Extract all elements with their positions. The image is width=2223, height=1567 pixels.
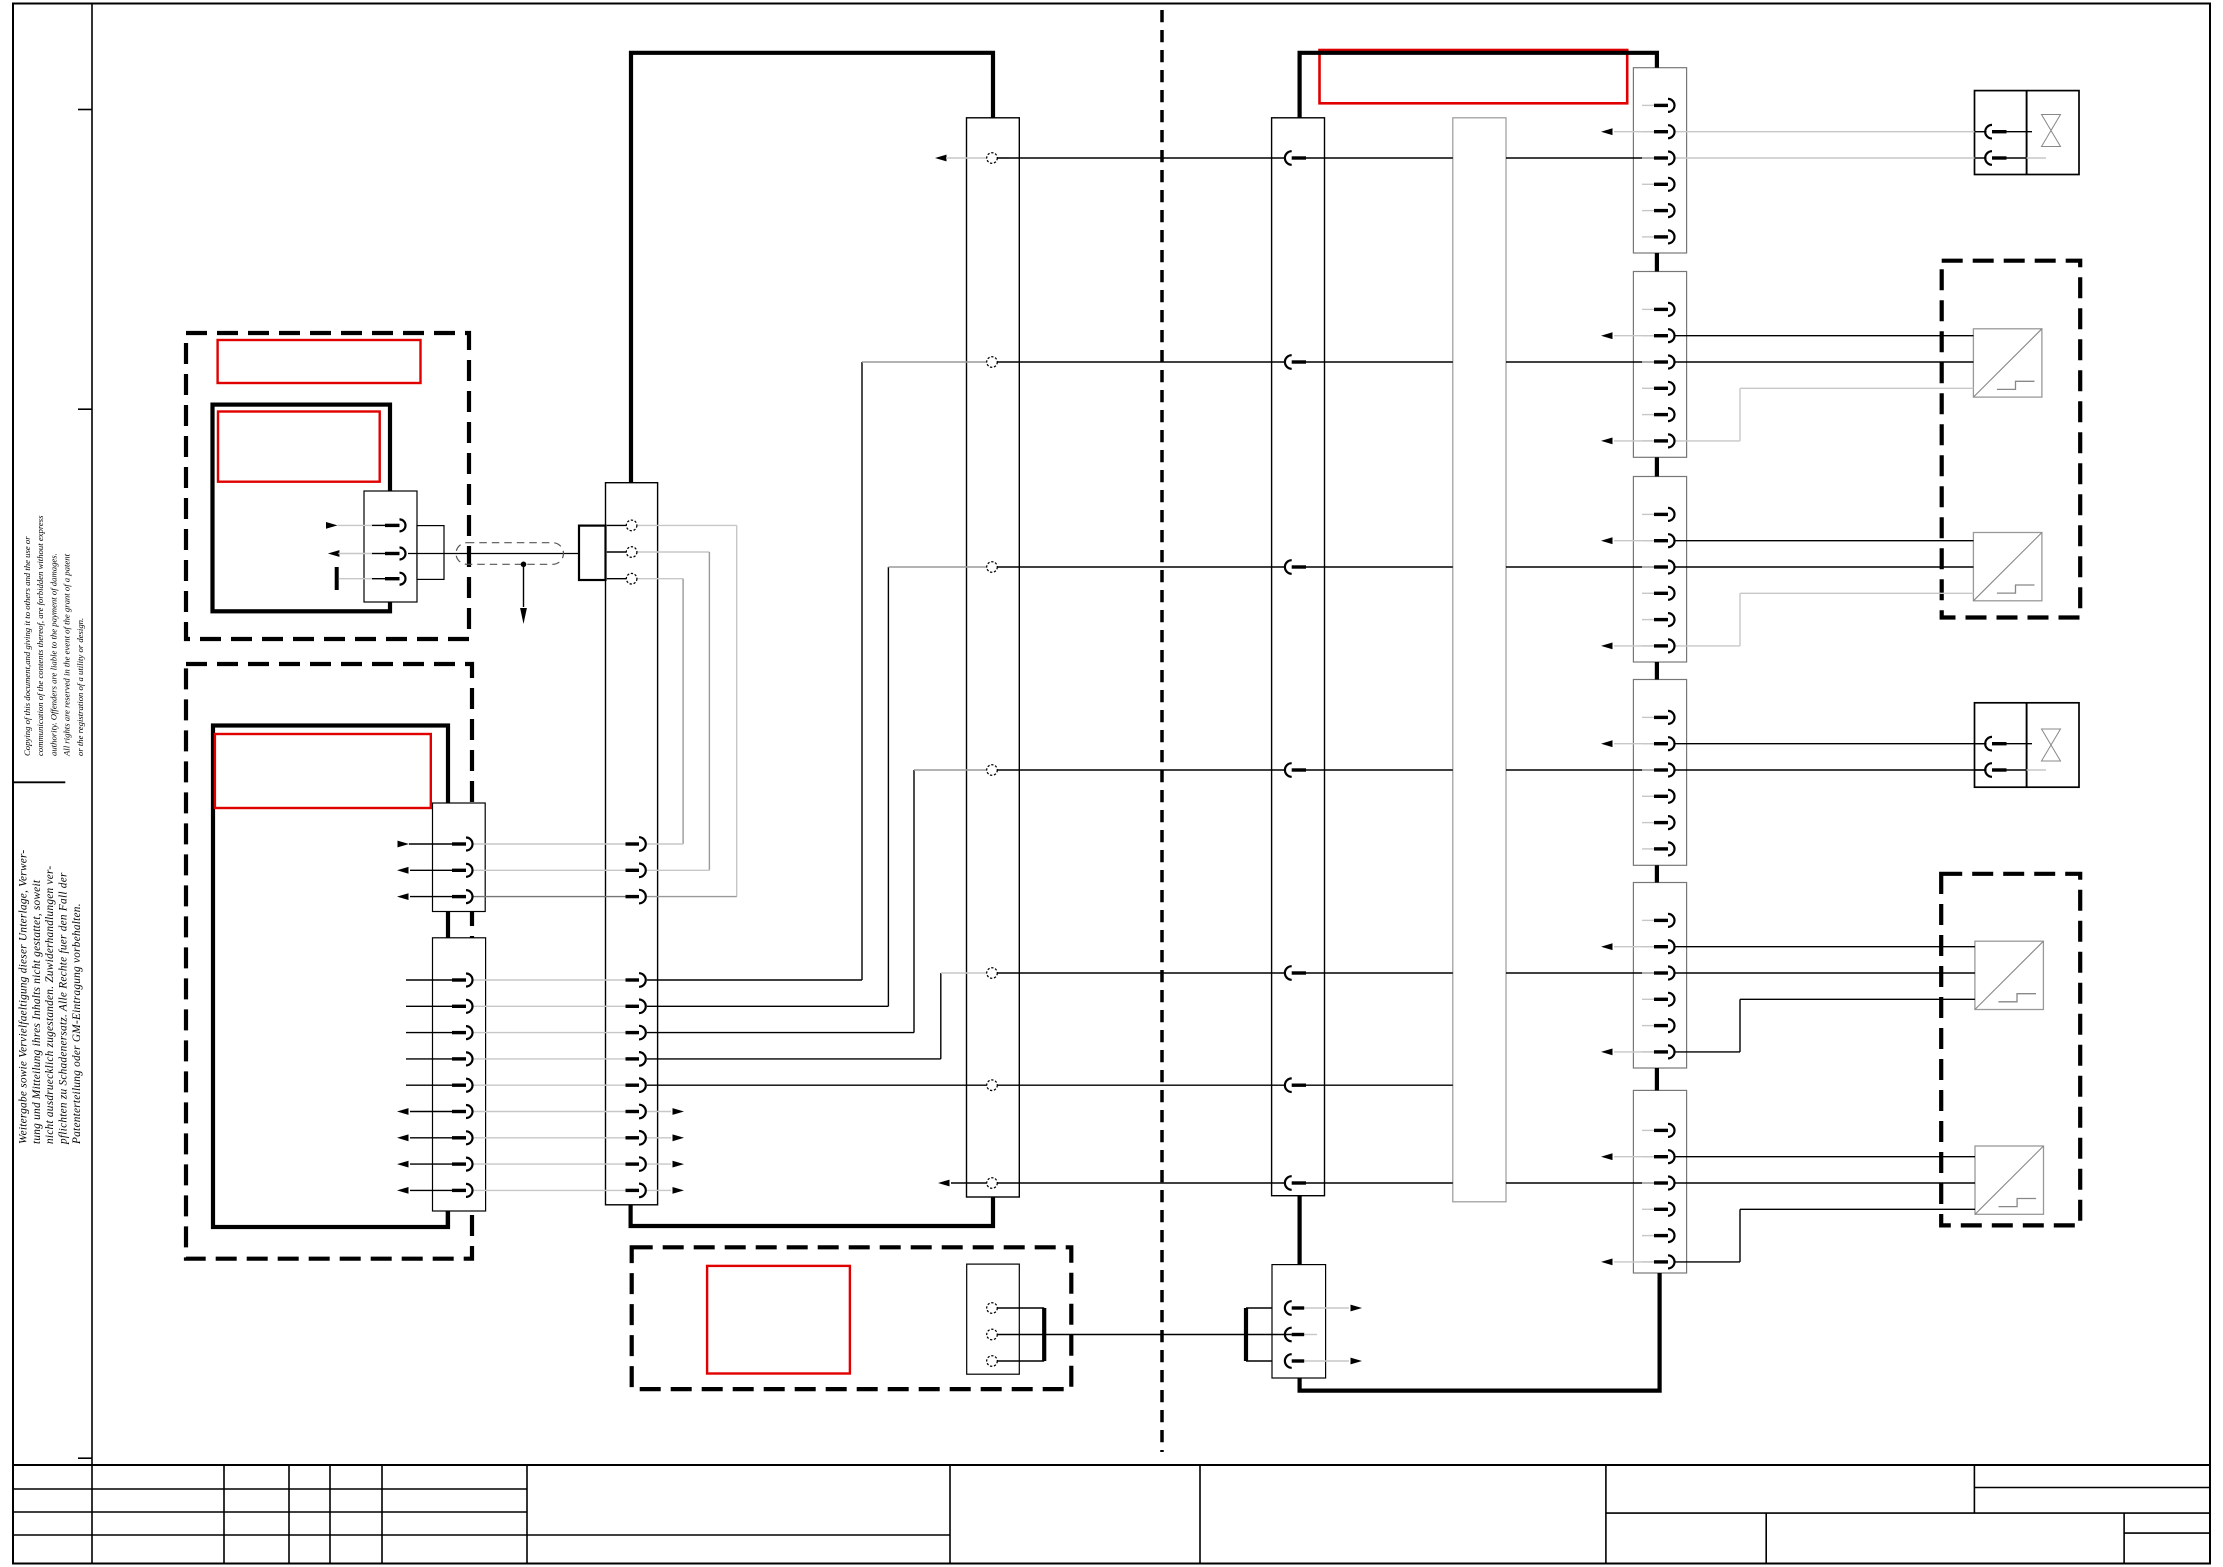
svg-text:pflichten zu Schadenersatz. Al: pflichten zu Schadenersatz. Alle Rechte … (58, 872, 70, 1145)
svg-text:or the registration of a utili: or the registration of a utility or desi… (75, 618, 85, 756)
svg-text:All rights are reserved in the: All rights are reserved in the event of … (62, 553, 72, 757)
svg-text:Copying of this document,and g: Copying of this document,and giving it t… (22, 536, 32, 756)
svg-text:communication of the contents: communication of the contents thereof, a… (35, 515, 45, 756)
svg-text:nicht ausdruecklich zugestande: nicht ausdruecklich zugestanden. Zuwider… (44, 866, 56, 1144)
svg-text:Weitergabe sowie Vervielfaelti: Weitergabe sowie Vervielfaeltigung diese… (17, 850, 29, 1144)
svg-text:authority. Offenders are liabl: authority. Offenders are liable to the p… (48, 553, 58, 756)
svg-text:Patenterteilung oder GM-Eintra: Patenterteilung oder GM-Eintragung vorbe… (71, 903, 83, 1145)
svg-text:tung und Mitteilung ihres Inha: tung und Mitteilung ihres Inhalts nicht … (31, 879, 43, 1144)
